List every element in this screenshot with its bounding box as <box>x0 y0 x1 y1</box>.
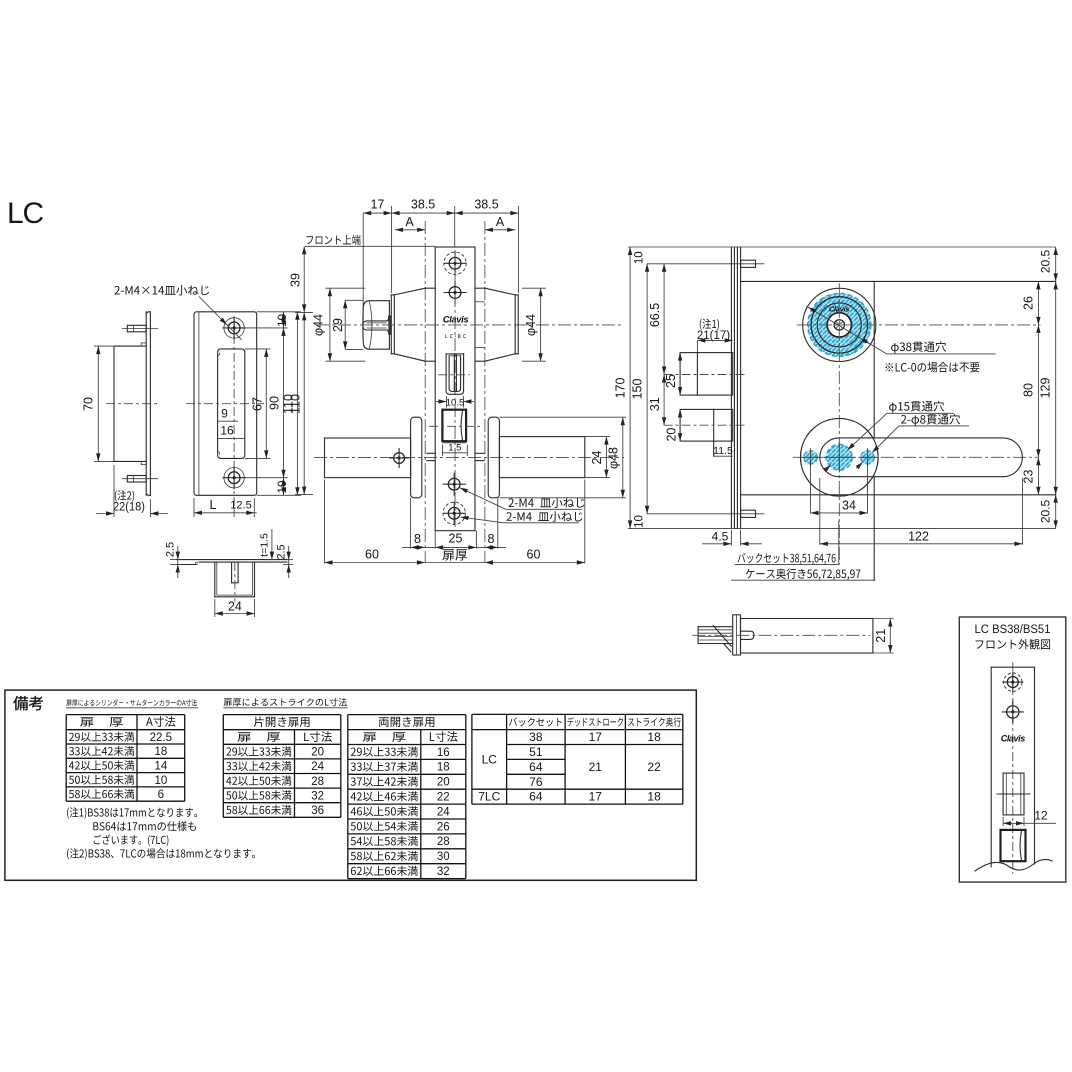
left lever set screw <box>394 453 405 464</box>
case right edge / depth line <box>873 281 875 438</box>
dimension 67 <box>265 349 267 459</box>
phi15 hole hatched <box>826 444 852 470</box>
deadbolt appearance thick <box>1001 830 1026 861</box>
dimension 150 <box>646 264 648 514</box>
svg-text:28: 28 <box>437 836 450 848</box>
strike bottom screw boss <box>232 562 239 583</box>
svg-text:LC: LC <box>7 197 43 230</box>
label front top edge <box>306 235 360 245</box>
strike side view plate <box>145 312 147 496</box>
svg-text:122: 122 <box>908 530 929 544</box>
svg-text:21: 21 <box>874 629 888 643</box>
dimension 110 center <box>303 312 305 494</box>
left rose cone <box>394 288 425 295</box>
svg-text:129: 129 <box>1039 378 1053 399</box>
dimension 24 lever <box>585 436 610 438</box>
dimension 122 <box>819 478 821 545</box>
svg-text:Clavis: Clavis <box>1001 734 1026 744</box>
svg-text:17: 17 <box>589 790 603 804</box>
left lever rose <box>411 417 422 498</box>
svg-text:2.5: 2.5 <box>276 544 288 559</box>
right rose plate upper <box>514 295 516 354</box>
svg-text:10: 10 <box>634 251 646 264</box>
svg-text:22: 22 <box>437 792 450 804</box>
thumbturn grip <box>363 301 390 350</box>
svg-text:38.5: 38.5 <box>411 198 435 212</box>
svg-text:23: 23 <box>1022 470 1036 484</box>
svg-text:A: A <box>405 215 414 229</box>
front plate center view <box>435 247 475 531</box>
svg-text:10: 10 <box>634 515 646 528</box>
svg-text:76: 76 <box>529 775 543 789</box>
phi38 leader line <box>807 306 887 354</box>
svg-text:22(18): 22(18) <box>113 502 145 514</box>
svg-text:20.5: 20.5 <box>1039 499 1053 523</box>
svg-text:8: 8 <box>488 532 495 546</box>
dimension 12 <box>1002 817 1004 826</box>
svg-text:60: 60 <box>365 548 379 562</box>
phi8 hole right <box>861 451 874 464</box>
dimension 70 <box>94 345 114 347</box>
dimension 80 <box>1037 325 1039 457</box>
LC BC tiny text <box>445 334 465 338</box>
svg-text:51: 51 <box>529 745 543 759</box>
leader 2-M4 screw labels <box>460 488 506 510</box>
front appearance box <box>959 617 1066 882</box>
svg-text:90: 90 <box>268 396 282 410</box>
dimension 23 <box>1037 457 1039 495</box>
svg-text:LC: LC <box>482 753 498 767</box>
plate screw second <box>449 287 461 299</box>
front plate screw top <box>1007 677 1018 688</box>
svg-text:t=1.5: t=1.5 <box>259 533 271 557</box>
note (chu1) and dimension 21(17) <box>700 319 719 330</box>
svg-text:36: 36 <box>311 805 324 817</box>
dimension 2.5 right <box>283 559 293 561</box>
table B single door <box>223 714 340 716</box>
svg-text:18: 18 <box>647 790 661 804</box>
svg-text:110: 110 <box>289 394 303 414</box>
dimension 20.5 bottom right <box>1055 495 1057 529</box>
dimension 129 <box>1055 281 1057 494</box>
svg-text:25: 25 <box>664 374 678 388</box>
strike side centerline <box>106 403 160 405</box>
label 2-phi8 through hole with leader <box>901 414 960 426</box>
table L title underlined <box>224 698 347 706</box>
collar centerline <box>664 374 745 376</box>
svg-text:L: L <box>210 498 217 512</box>
svg-text:φ44: φ44 <box>524 314 538 336</box>
label phi15 through hole with leader <box>889 401 944 413</box>
spindle stub <box>741 631 754 639</box>
remarks title <box>13 696 43 710</box>
note (chu2) label <box>115 490 134 501</box>
label 2-M4x14 screws with leader <box>114 285 209 295</box>
thumbturn flange <box>387 316 389 334</box>
left rose plate upper <box>390 295 392 354</box>
strike screw top <box>224 318 244 338</box>
strike latch cutout <box>218 349 245 459</box>
phi38 hole hatched <box>808 293 871 356</box>
svg-text:12: 12 <box>1034 809 1048 823</box>
spindle flange <box>733 615 741 655</box>
lever stadium <box>820 438 1023 477</box>
label LC-0 note <box>885 362 979 373</box>
svg-text:150: 150 <box>631 379 645 400</box>
dimension 29 box <box>345 299 363 301</box>
strike side bottom screw post <box>127 476 146 483</box>
front plate centerline <box>1012 662 1014 874</box>
svg-text:66.5: 66.5 <box>648 303 662 327</box>
dimension 31 <box>663 375 665 426</box>
dimension 110 strike <box>296 312 298 496</box>
svg-text:31: 31 <box>648 397 662 411</box>
dimension 20.5 top right <box>1055 247 1057 281</box>
svg-text:20.5: 20.5 <box>1039 249 1053 273</box>
dimension 10.5 latch <box>445 396 447 408</box>
plate centerline vertical <box>454 250 456 528</box>
svg-text:24: 24 <box>590 451 604 465</box>
svg-text:21: 21 <box>589 760 603 774</box>
dimension 34 <box>810 461 812 514</box>
svg-text:38: 38 <box>529 730 543 744</box>
svg-text:22.5: 22.5 <box>150 732 172 744</box>
strike front plate <box>194 312 257 496</box>
dimension L and 12.5 <box>193 498 195 517</box>
spindle hub lines left <box>427 452 435 454</box>
svg-text:39: 39 <box>289 273 303 287</box>
svg-text:10: 10 <box>277 481 289 494</box>
right lever handle <box>499 437 584 478</box>
cylinder collar profile <box>680 353 733 396</box>
top screw stub <box>741 260 756 267</box>
dimension 17 38.5 38.5 top <box>363 212 518 214</box>
break wave line <box>975 859 1052 871</box>
strike screw bottom <box>224 468 244 488</box>
svg-text:20: 20 <box>311 747 324 759</box>
svg-text:A: A <box>496 215 505 229</box>
dimension 8 25 8 bottom <box>410 498 412 549</box>
dimension 26 <box>1037 281 1039 325</box>
svg-text:4.5: 4.5 <box>712 530 729 544</box>
svg-text:10: 10 <box>154 775 167 787</box>
svg-text:LC BS38/BS51: LC BS38/BS51 <box>975 624 1051 636</box>
left lever handle <box>325 438 411 478</box>
strike side dust box <box>114 345 146 347</box>
lever hub circle <box>801 419 879 497</box>
dimension 170 <box>629 247 631 528</box>
dimension phi48 rose <box>499 416 626 418</box>
svg-text:34: 34 <box>842 499 856 513</box>
svg-text:6: 6 <box>158 789 164 801</box>
svg-text:24: 24 <box>437 806 450 818</box>
svg-text:10: 10 <box>277 314 289 327</box>
svg-text:25: 25 <box>449 532 463 546</box>
svg-text:17: 17 <box>370 198 384 212</box>
svg-text:64: 64 <box>529 790 543 804</box>
svg-text:60: 60 <box>527 548 541 562</box>
svg-text:Clavis: Clavis <box>443 315 469 326</box>
svg-text:18: 18 <box>437 762 450 774</box>
bottom screw stub <box>741 510 756 517</box>
strike bottom dust box walls <box>214 562 216 597</box>
svg-text:12.5: 12.5 <box>230 500 251 512</box>
svg-text:32: 32 <box>311 790 324 802</box>
thumbturn collar profile <box>680 409 733 441</box>
label front appearance <box>976 639 1050 650</box>
latch bolt front <box>446 353 464 355</box>
plate bottom extension line <box>628 527 1056 529</box>
svg-text:1.5: 1.5 <box>448 443 461 454</box>
spindle centerline <box>692 634 870 636</box>
label case depth <box>746 568 861 580</box>
svg-text:26: 26 <box>437 821 450 833</box>
dimension 21 spindle <box>873 618 894 620</box>
table C double door <box>348 714 466 716</box>
lever centerline case view <box>793 456 1038 458</box>
strike side top screw post <box>127 325 146 332</box>
svg-text:18: 18 <box>647 730 661 744</box>
dimension 25 collar <box>679 353 681 396</box>
label phi38 through hole <box>891 341 946 353</box>
svg-text:φ48: φ48 <box>606 447 620 469</box>
dimension phi44 right <box>522 287 546 289</box>
dimension 20 collar <box>679 409 681 441</box>
svg-text:7LC: 7LC <box>478 790 500 804</box>
hole cross ticks <box>810 448 812 467</box>
spindle hub lines right <box>475 452 484 454</box>
svg-text:28: 28 <box>311 776 324 788</box>
spindle shaft diagonal <box>713 626 731 647</box>
dimension 9 inside cutout <box>218 420 238 422</box>
svg-text:80: 80 <box>1022 383 1036 397</box>
case front plate edge-on <box>730 247 732 528</box>
svg-text:20: 20 <box>665 428 679 442</box>
dimension 16 inside cutout <box>218 437 245 439</box>
svg-text:20: 20 <box>437 777 450 789</box>
svg-text:8: 8 <box>414 532 421 546</box>
lever hub circle redraw <box>801 419 879 497</box>
spindle splined shaft <box>697 627 699 644</box>
thumbturn stem <box>363 321 387 330</box>
case bottom edge <box>741 494 1056 496</box>
svg-text:32: 32 <box>437 866 450 878</box>
svg-text:9: 9 <box>221 407 228 421</box>
dimension t=1.5 <box>264 559 276 561</box>
dimension 90 and 10 10 <box>283 328 285 478</box>
right rose cone upper <box>475 287 485 289</box>
svg-text:18: 18 <box>154 746 167 758</box>
dimension 39 <box>303 246 305 312</box>
latch bolt appearance <box>1003 773 1024 815</box>
case vertical centerline <box>838 283 840 565</box>
phi38 centerline horizontal <box>797 324 1041 326</box>
phi38 rose circles <box>803 288 876 361</box>
plate screw third with leader <box>448 478 460 490</box>
svg-text:70: 70 <box>82 397 96 411</box>
front plate appearance <box>991 666 1034 668</box>
thumbturn collar centerline <box>664 424 745 426</box>
svg-text:16: 16 <box>437 747 450 759</box>
table A title underlined <box>66 699 197 706</box>
notes under table A <box>67 807 197 818</box>
svg-text:11.5: 11.5 <box>713 445 733 457</box>
dimension A A <box>395 229 425 231</box>
table A door thickness / A dim <box>66 714 185 716</box>
spindle body <box>741 619 873 654</box>
svg-text:2.5: 2.5 <box>165 542 177 557</box>
svg-text:170: 170 <box>614 378 628 399</box>
svg-text:14: 14 <box>154 761 167 773</box>
right lever rose <box>488 417 499 498</box>
dimension 2.5 left <box>170 559 181 561</box>
front plate screw second <box>1007 706 1019 718</box>
svg-text:38.5: 38.5 <box>474 198 498 212</box>
dimension phi44 left <box>326 287 366 289</box>
plate top extension line <box>628 246 1056 248</box>
svg-text:10.5: 10.5 <box>446 398 465 409</box>
phi8 hole left <box>804 451 817 464</box>
svg-text:24: 24 <box>311 761 324 773</box>
extension lines right of strike <box>257 311 301 313</box>
case top edge <box>741 280 1056 282</box>
door face centerlines <box>424 221 426 563</box>
remarks outer box <box>5 690 696 880</box>
dimension 60 60 bottom <box>324 480 326 564</box>
svg-text:30: 30 <box>437 851 450 863</box>
svg-text:64: 64 <box>529 760 543 774</box>
svg-text:17: 17 <box>589 730 603 744</box>
plate screw top slotted <box>449 257 461 269</box>
dimension 1.5 deadbolt <box>441 445 443 457</box>
svg-text:24: 24 <box>228 600 242 614</box>
strike front centerlines <box>233 317 235 508</box>
label backset <box>738 553 836 565</box>
plate screw fourth slotted <box>448 507 460 519</box>
knob centerline horizontal <box>316 324 622 326</box>
svg-text:67: 67 <box>251 397 265 411</box>
dimension 66.5 <box>663 264 665 375</box>
svg-text:22: 22 <box>647 760 661 774</box>
dimension 11.5 <box>714 455 733 457</box>
deadbolt front <box>442 410 466 442</box>
svg-text:26: 26 <box>1022 296 1036 310</box>
table D backset specs <box>472 713 683 715</box>
svg-text:16: 16 <box>220 424 234 438</box>
strike bottom view plate bar <box>177 559 287 561</box>
lever centerline <box>314 456 624 458</box>
dimension 24 <box>214 599 216 617</box>
